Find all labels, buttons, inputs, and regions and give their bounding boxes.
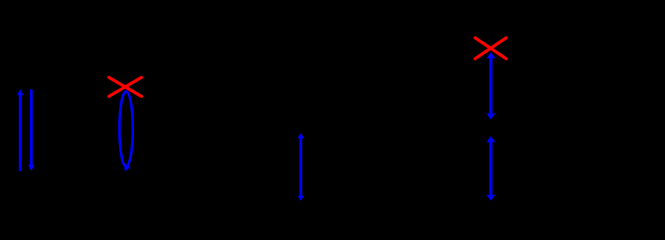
double arrow lower (via intermediate level) <box>486 136 495 201</box>
loop arrow (forbidden cycle) <box>119 91 132 171</box>
red X (forbidden transition) <box>475 38 506 59</box>
red X over loop <box>109 77 142 96</box>
arrow down (spin pair right) <box>28 90 35 171</box>
arrow up (spin pair left) <box>17 89 24 171</box>
double arrow upper (via intermediate level) <box>486 52 495 119</box>
double arrow (allowed transition) <box>298 133 305 201</box>
